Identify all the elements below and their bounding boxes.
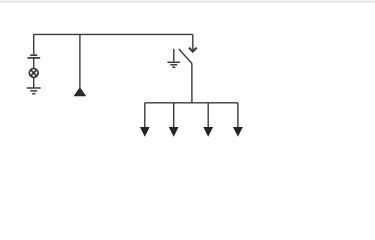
battery V1	[27, 55, 40, 58]
lamp L1	[29, 69, 38, 78]
load arrow 3	[203, 103, 213, 137]
wire: right drop from rail	[192, 34, 194, 49]
load arrow 1	[140, 103, 150, 137]
wire: bottom bus	[145, 102, 238, 104]
load arrow 2	[169, 103, 179, 137]
top border rule	[0, 1, 375, 2]
wire: battery to lamp	[33, 58, 35, 68]
wire: middle vertical	[79, 34, 81, 88]
terminal arrow (open chevron)	[189, 48, 197, 52]
ground GND2 (solid triangle)	[74, 87, 87, 96]
load arrow 4	[233, 103, 243, 137]
wire: switch to bus	[191, 64, 193, 103]
wire: lamp to ground	[33, 77, 35, 88]
switch SW1 blade	[179, 49, 192, 64]
ground GND1 (earth)	[27, 88, 41, 94]
ground GND3 (earth, near switch)	[168, 49, 181, 67]
wire: left drop to battery	[33, 34, 35, 54]
wire: top rail	[34, 33, 193, 35]
